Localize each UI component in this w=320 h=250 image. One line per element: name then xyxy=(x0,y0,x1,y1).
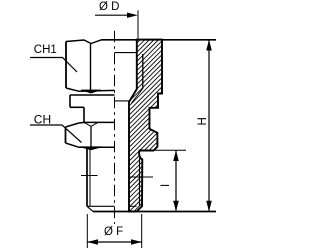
collar top edge xyxy=(70,94,115,96)
collar left edge xyxy=(69,95,71,107)
hex CH top edge xyxy=(66,122,115,127)
dim I line xyxy=(175,150,177,211)
collar bottom edge xyxy=(70,106,84,108)
hex nut CH1 left outer edge xyxy=(65,42,67,89)
dim Ø F arrow left xyxy=(87,239,98,245)
dim Ø F extension line left xyxy=(86,214,88,248)
part top face line xyxy=(102,39,217,41)
section body (hatched cut of fitting, right half) xyxy=(129,40,162,212)
neck left edge xyxy=(83,107,85,122)
svg-text:Ø D: Ø D xyxy=(99,1,119,13)
dim H line xyxy=(208,40,210,212)
dim Ø D extension line xyxy=(137,10,139,39)
hex nut CH1 bottom edge xyxy=(66,88,115,91)
hex CH left outer edge xyxy=(65,127,67,143)
leader CH xyxy=(30,125,82,143)
stud inner chamfer edge (section) xyxy=(129,205,137,207)
thread runout cone (section, upper) xyxy=(132,89,143,104)
stud major diameter line (left) xyxy=(86,148,88,206)
hex CH top vee xyxy=(84,122,98,126)
svg-text:CH1: CH1 xyxy=(34,44,57,56)
dim I extension line xyxy=(148,149,186,151)
dim Ø F line xyxy=(87,241,141,243)
thread end face edge xyxy=(115,52,137,54)
hex nut CH1 bottom chamfer vee xyxy=(81,90,101,93)
hex CH bottom edge xyxy=(66,143,115,147)
dim Ø D arrow xyxy=(95,14,135,16)
svg-text:CH: CH xyxy=(34,112,51,126)
thread length tick (left) xyxy=(81,175,98,177)
dim H arrow down xyxy=(206,201,212,212)
stud chamfer slant (left) xyxy=(87,206,93,211)
stud chamfer edge line xyxy=(87,205,115,207)
male thread minor line (section, right) xyxy=(139,158,141,206)
bore step edge xyxy=(115,100,130,102)
svg-text:I: I xyxy=(160,184,172,187)
thread length tick (right) xyxy=(130,176,153,178)
dim Ø F extension line right xyxy=(141,214,143,248)
hex nut CH1 face line xyxy=(90,44,92,93)
dim Ø F arrow right xyxy=(131,239,142,245)
leader CH1 xyxy=(30,58,77,73)
dim I arrow up xyxy=(173,150,179,161)
hex CH bottom chamfer vee xyxy=(80,147,103,150)
hex CH face line xyxy=(90,126,92,147)
female thread line (section, upper) xyxy=(142,54,144,89)
hex nut CH1 top edge xyxy=(66,40,102,44)
svg-text:H: H xyxy=(197,117,209,125)
stud minor thread line (left) xyxy=(89,150,91,207)
centerline xyxy=(114,31,116,224)
part bottom face line xyxy=(93,211,216,213)
svg-text:Ø F: Ø F xyxy=(104,226,123,238)
dim I arrow down xyxy=(173,201,179,212)
dim H arrow up xyxy=(206,40,212,51)
